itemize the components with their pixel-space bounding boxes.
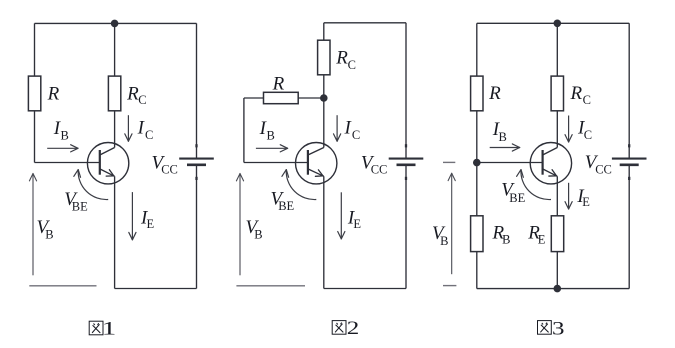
svg-text:E: E [538, 233, 546, 247]
svg-text:CC: CC [161, 162, 178, 176]
svg-text:C: C [584, 128, 592, 142]
svg-text:E: E [582, 195, 590, 209]
svg-text:C: C [138, 93, 146, 107]
svg-text:B: B [440, 234, 448, 248]
svg-text:C: C [583, 93, 591, 107]
svg-text:R: R [488, 83, 501, 104]
svg-text:B: B [61, 129, 69, 143]
svg-text:3: 3 [552, 318, 565, 339]
svg-text:E: E [353, 217, 361, 231]
svg-text:C: C [348, 58, 356, 72]
svg-text:R: R [272, 73, 285, 94]
svg-text:1: 1 [102, 319, 117, 340]
svg-text:BE: BE [509, 191, 525, 205]
svg-text:BE: BE [278, 199, 294, 213]
svg-text:CC: CC [371, 163, 388, 177]
svg-text:E: E [147, 217, 155, 231]
svg-text:C: C [145, 128, 153, 142]
svg-text:R: R [335, 47, 348, 68]
svg-text:B: B [499, 130, 507, 144]
svg-text:C: C [352, 128, 360, 142]
svg-text:BE: BE [72, 200, 88, 214]
svg-text:2: 2 [347, 318, 360, 339]
svg-text:CC: CC [595, 163, 612, 177]
svg-text:R: R [126, 83, 139, 104]
svg-text:B: B [267, 129, 275, 143]
svg-text:R: R [570, 83, 583, 104]
svg-text:R: R [47, 84, 60, 105]
svg-text:B: B [45, 228, 53, 242]
svg-text:B: B [254, 228, 262, 242]
svg-text:B: B [502, 233, 510, 247]
